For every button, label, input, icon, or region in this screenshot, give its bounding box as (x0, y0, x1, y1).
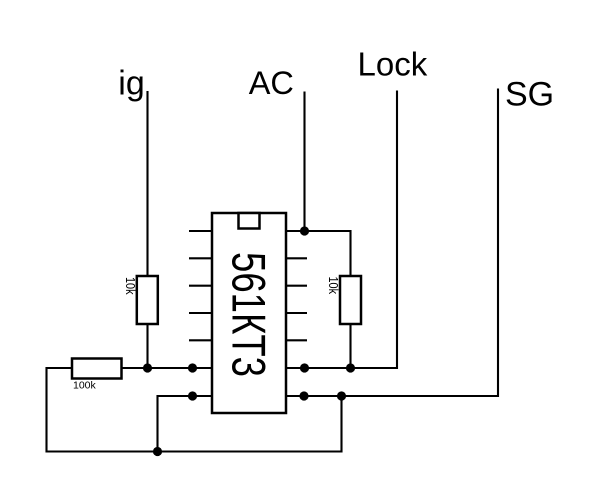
svg-text:10k: 10k (326, 277, 340, 295)
svg-text:10k: 10k (123, 277, 137, 295)
svg-text:Lock: Lock (358, 46, 428, 83)
svg-text:561КТ3: 561КТ3 (223, 252, 276, 377)
svg-text:100k: 100k (73, 380, 97, 392)
svg-text:SG: SG (505, 76, 554, 114)
svg-text:ig: ig (118, 65, 144, 103)
svg-text:AC: AC (249, 65, 294, 101)
